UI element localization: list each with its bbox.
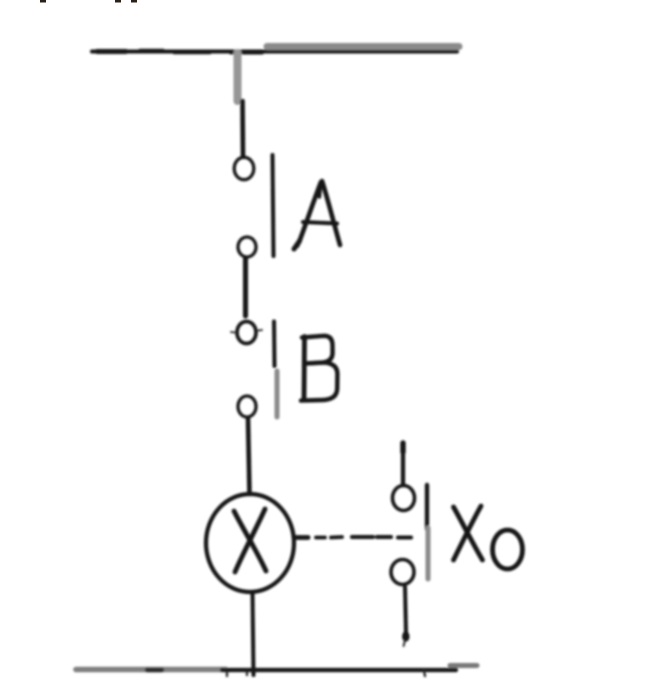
contact Xo bar lower <box>426 528 431 579</box>
wire: top rail junction down to contact A <box>238 53 244 156</box>
contact Xo bar upper <box>425 485 429 529</box>
contact Xo bottom circle <box>391 560 414 585</box>
label A <box>294 181 340 249</box>
cropped text remnant top-left <box>40 0 137 3</box>
coil X circle <box>206 494 294 592</box>
label Xo <box>454 506 523 569</box>
contact B bar lower <box>275 371 280 417</box>
bottom power rail <box>76 666 477 677</box>
top power rail <box>92 47 459 53</box>
contact B bar upper <box>272 322 277 367</box>
wire: contact Xo bottom stub <box>403 587 409 646</box>
wire: coil X to bottom rail <box>253 592 254 675</box>
wire: contact B to coil X <box>248 418 250 494</box>
contact A bottom circle <box>238 237 256 257</box>
contact B <box>231 322 277 418</box>
contact B bottom circle <box>238 396 256 417</box>
contact A <box>234 155 273 257</box>
contact A bar <box>273 155 274 256</box>
label B <box>301 336 337 401</box>
contact B tick right <box>258 329 262 332</box>
wire: contact Xo top stub <box>400 443 405 485</box>
coil X letter <box>234 509 266 572</box>
contact Xo top circle <box>393 486 415 511</box>
wire: contact A to contact B <box>243 258 248 316</box>
contact Xo <box>391 485 428 585</box>
dashed link: coil X to contact Xo <box>296 535 411 540</box>
contact A top circle <box>234 157 254 179</box>
contact B top circle <box>237 322 256 344</box>
contact B tick left <box>231 331 235 334</box>
